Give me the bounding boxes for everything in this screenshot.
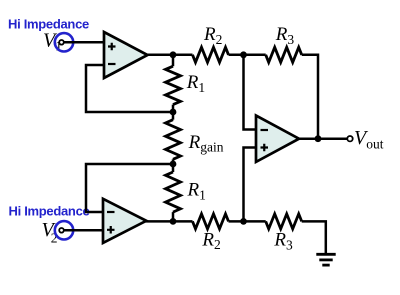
wire: U3 output to Vout terminal <box>298 137 347 140</box>
node C (U3 inverting branch) <box>240 51 247 58</box>
node A (U1 output / R1 top) <box>170 51 177 58</box>
op-amp U2 (bottom) <box>103 199 146 243</box>
wire: R2 to R3 (bottom run) <box>229 220 266 223</box>
resistor R1 (top) <box>166 66 181 104</box>
resistor R2 (top) <box>193 47 229 62</box>
wire: V2 terminal to U2 non-inverting input <box>64 229 103 232</box>
wire: node C down to U3 inverting input <box>244 55 257 130</box>
op-amp U3 (output) <box>256 116 299 162</box>
wire: R1 bottom to node E <box>172 212 175 221</box>
node E (U2 output / R1 bottom) <box>170 218 177 225</box>
wire: U1 inverting input feedback loop to node B <box>86 65 173 112</box>
svg-text:Hi Impedance: Hi Impedance <box>9 203 90 218</box>
wire: V1 terminal to U1 non-inverting input <box>64 41 104 44</box>
highlight circle around V1 terminal <box>55 33 73 51</box>
node D (between Rgain and R1 bottom) <box>170 161 177 168</box>
wire: R1 bottom to node B <box>172 105 175 120</box>
resistor R3 (top) <box>266 47 302 62</box>
op-amp U1 (top) <box>104 32 148 78</box>
ground <box>316 254 335 265</box>
wire: U1 output to R2 (top run) <box>147 54 193 57</box>
wire: node F up to U3 non-inverting input <box>244 148 257 222</box>
highlight circle around V2 terminal <box>55 221 73 239</box>
resistor R3 (bottom) <box>266 214 302 229</box>
wire: R3 top to output node (right side down) <box>302 55 318 139</box>
wire: U2 output to R2 (bottom run) <box>145 220 192 223</box>
wire: stub node A to R1 top <box>172 55 175 66</box>
terminal Vout (open circle) <box>347 136 352 141</box>
resistor Rgain <box>166 120 181 160</box>
terminal V2 (input pin, open circle) <box>59 228 64 233</box>
resistor R1 (bottom) <box>166 172 181 212</box>
resistor R2 (bottom) <box>193 214 229 229</box>
node B (between R1 top and Rgain) <box>170 109 177 116</box>
wire: R3 bottom to ground <box>302 221 326 254</box>
wire: Rgain to node D <box>172 159 175 172</box>
node G (output / R3 feedback) <box>315 135 322 142</box>
terminal V1 (input pin, open circle) <box>59 40 64 45</box>
wire: R2 to R3 (top run) <box>229 54 266 57</box>
wire: U2 inverting input feedback loop to node D <box>86 164 173 212</box>
node F (U3 non-inverting branch) <box>240 218 247 225</box>
